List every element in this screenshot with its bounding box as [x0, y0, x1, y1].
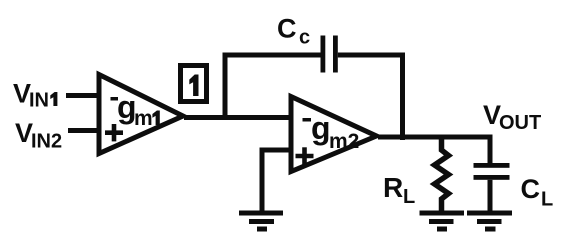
- ground under CL: [467, 211, 512, 232]
- svg-text:IN2: IN2: [31, 131, 62, 153]
- wire Cc top right segment: [338, 53, 405, 58]
- ground under gm2: [239, 211, 283, 232]
- wire Cc top left segment: [223, 53, 321, 58]
- label Cc: [277, 14, 310, 49]
- plus input marker of gm2: [296, 147, 314, 164]
- label CL: [521, 174, 554, 211]
- plus input marker of gm1: [105, 124, 123, 141]
- svg-text:L: L: [403, 186, 415, 208]
- op-amp gm2 triangle: [291, 97, 377, 172]
- svg-text:m: m: [134, 107, 153, 130]
- wire VIN1 input: [66, 93, 100, 98]
- svg-text:IN: IN: [29, 90, 49, 112]
- capacitor CL: [474, 135, 510, 214]
- wire gm2 non-inverting input to ground: [262, 150, 292, 213]
- svg-text:g: g: [311, 110, 331, 146]
- svg-text:m2: m2: [329, 130, 359, 153]
- svg-text:C: C: [277, 14, 297, 44]
- resistor RL: [435, 137, 449, 213]
- minus input marker of gm1: [111, 97, 119, 101]
- minus input marker of gm2: [303, 118, 312, 122]
- label VIN1: [13, 79, 57, 112]
- svg-text:OUT: OUT: [499, 112, 541, 134]
- svg-text:R: R: [383, 172, 403, 203]
- svg-text:C: C: [521, 174, 541, 204]
- label gm1: [117, 89, 160, 130]
- capacitor Cc: [321, 36, 338, 73]
- svg-text:L: L: [541, 189, 553, 211]
- label VOUT: [483, 100, 541, 134]
- label VIN2: [15, 118, 62, 153]
- label RL: [383, 172, 415, 208]
- wire node 1: gm1 output to gm2 inverting input: [184, 115, 291, 120]
- wire VIN2 input: [68, 128, 100, 133]
- op-amp gm1 triangle: [99, 75, 183, 154]
- node 1 box with label: [181, 66, 207, 102]
- wire Cc left branch (node 1 up): [223, 53, 228, 121]
- ground under RL: [420, 211, 465, 232]
- wire output node (gm2 output to CL): [378, 135, 493, 140]
- label gm2: [311, 110, 359, 153]
- svg-text:c: c: [299, 27, 310, 49]
- wire Cc right branch (down to output): [400, 53, 405, 141]
